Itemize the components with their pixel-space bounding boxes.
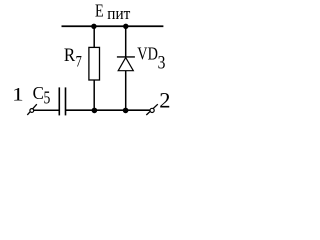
wire terminal 1 to C5 (34, 109, 59, 111)
wire from VD3 to bottom rail (125, 71, 127, 110)
wire top power rail (62, 25, 164, 27)
svg-text:5: 5 (44, 87, 51, 107)
capacitor C5 label (33, 83, 51, 108)
label R7 (64, 45, 82, 71)
capacitor C5 left plate (58, 87, 60, 115)
svg-text:VD: VD (137, 44, 158, 64)
svg-text:Е: Е (95, 1, 104, 21)
label VD3 (137, 44, 165, 74)
junction bottom rail / VD3 (123, 108, 129, 114)
svg-text:С: С (33, 83, 44, 103)
svg-text:3: 3 (158, 53, 166, 74)
wire bottom rail (66, 109, 150, 111)
terminal 2 slash (146, 104, 158, 115)
diode VD3 cathode bar (117, 56, 135, 58)
capacitor C5 right plate (65, 87, 67, 115)
node Епит label (95, 1, 130, 24)
wire from top rail to VD3 (125, 26, 127, 57)
wire from top rail to R7 (93, 26, 95, 47)
diode VD3 triangle (118, 58, 133, 71)
terminal 1 circle (30, 109, 34, 113)
junction top rail / VD3 (123, 24, 128, 29)
svg-text:7: 7 (76, 54, 82, 71)
terminal 1 slash (27, 104, 37, 115)
svg-text:R: R (64, 45, 76, 66)
svg-text:пит: пит (107, 4, 130, 23)
svg-text:1: 1 (12, 84, 24, 105)
terminal 2 circle (150, 108, 154, 112)
junction top rail / R7 (91, 24, 96, 29)
junction bottom rail / R7 (92, 108, 98, 114)
resistor R7 (89, 47, 100, 80)
svg-text:2: 2 (159, 88, 170, 113)
wire from R7 to bottom rail (93, 80, 95, 110)
